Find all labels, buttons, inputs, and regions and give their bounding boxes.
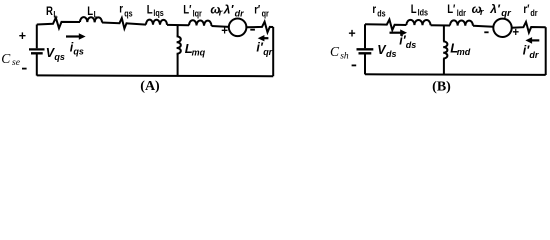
svg-text:C: C	[1, 51, 11, 66]
svg-text:L: L	[53, 10, 57, 20]
svg-text:r: r	[372, 3, 376, 16]
svg-text:qs: qs	[54, 52, 65, 62]
svg-text:+: +	[512, 27, 519, 39]
svg-text:lqr: lqr	[193, 9, 203, 19]
svg-text:L: L	[147, 3, 153, 16]
svg-text:r′: r′	[254, 3, 260, 16]
svg-text:lqs: lqs	[153, 8, 164, 18]
svg-text:dr: dr	[529, 50, 538, 60]
svg-text:+: +	[348, 26, 355, 40]
svg-text:qr: qr	[263, 47, 272, 57]
svg-text:(A): (A)	[140, 79, 160, 94]
svg-text:λ′: λ′	[223, 2, 235, 16]
svg-text:+: +	[19, 29, 26, 43]
svg-text:ldr: ldr	[457, 8, 467, 18]
svg-text:qr: qr	[501, 8, 512, 19]
svg-text:r: r	[480, 7, 484, 17]
svg-text:(B): (B)	[432, 79, 451, 94]
svg-text:lds: lds	[418, 8, 429, 18]
svg-text:qr: qr	[262, 9, 270, 19]
svg-text:sh: sh	[340, 51, 349, 61]
svg-text:L: L	[411, 3, 417, 16]
svg-text:r′: r′	[523, 3, 529, 16]
svg-text:L′: L′	[447, 3, 456, 16]
svg-text:r: r	[219, 8, 223, 18]
svg-text:r: r	[119, 3, 123, 16]
svg-text:se: se	[12, 58, 20, 68]
svg-text:qs: qs	[124, 9, 133, 19]
svg-text:L: L	[94, 10, 98, 20]
svg-text:md: md	[457, 47, 471, 57]
svg-text:dr: dr	[530, 8, 538, 18]
svg-text:λ′: λ′	[489, 2, 501, 16]
svg-text:mq: mq	[192, 48, 206, 58]
svg-text:L: L	[87, 5, 93, 18]
svg-text:R: R	[46, 5, 53, 18]
svg-text:ds: ds	[386, 49, 397, 59]
svg-text:ds: ds	[406, 40, 417, 50]
svg-text:qs: qs	[73, 47, 84, 57]
svg-text:C: C	[330, 44, 340, 59]
svg-text:+: +	[221, 26, 228, 38]
svg-text:dr: dr	[235, 9, 244, 19]
svg-text:L′: L′	[183, 3, 192, 16]
svg-text:ds: ds	[377, 9, 386, 19]
